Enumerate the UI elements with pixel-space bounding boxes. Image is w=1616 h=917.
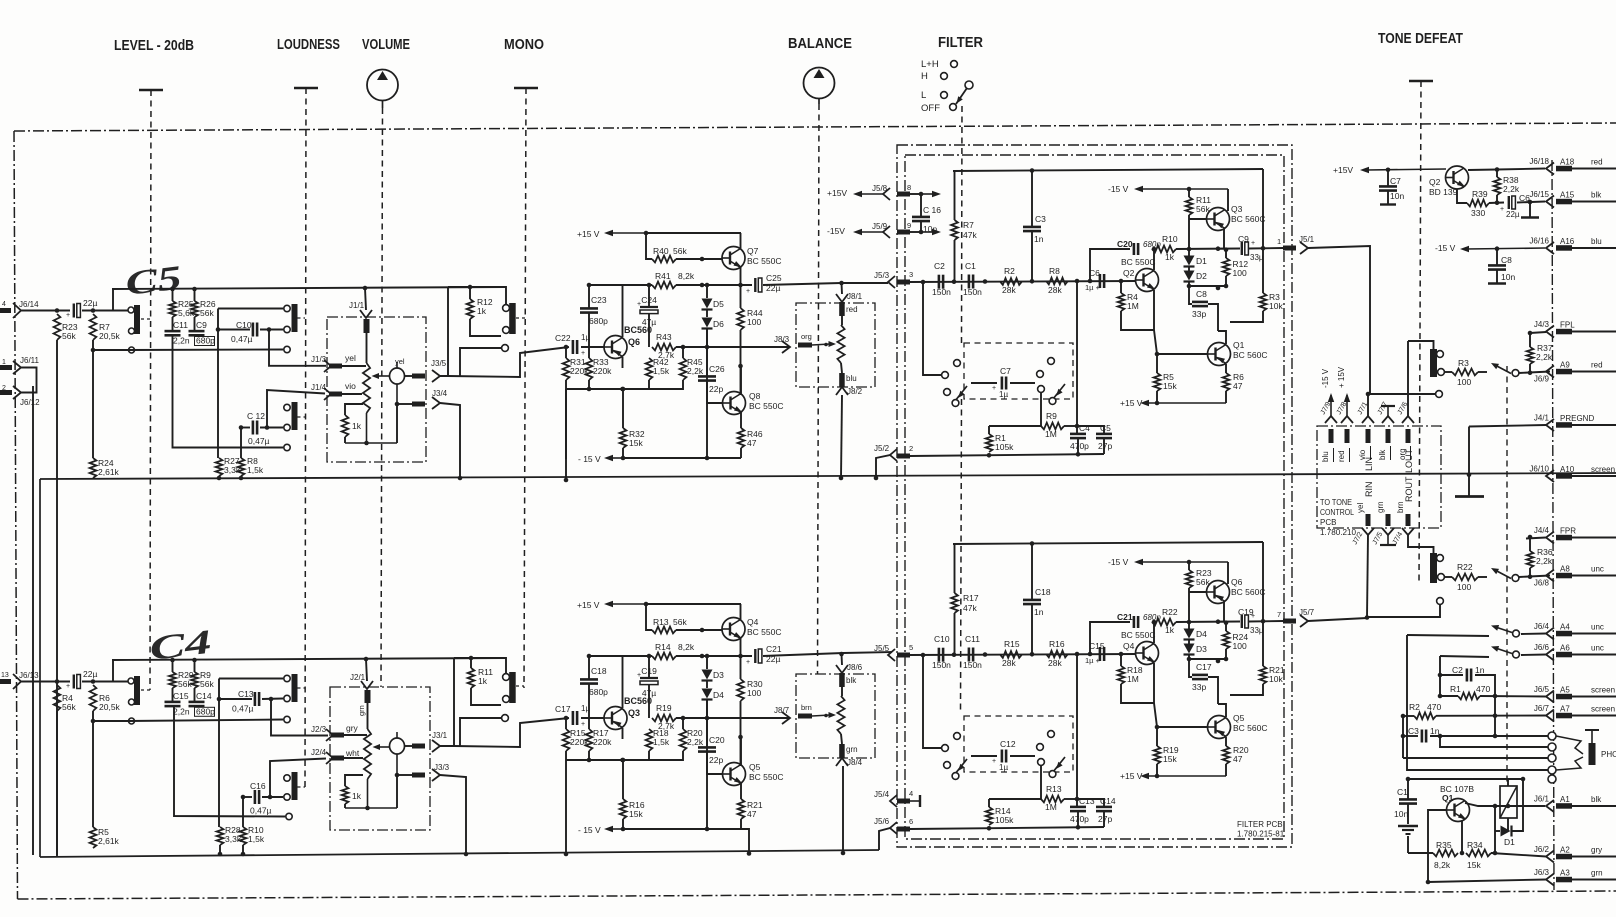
transistor Q1 BC560C bbox=[1208, 343, 1231, 366]
resistor R5 15k bbox=[1154, 373, 1161, 391]
diode col bot D2 bbox=[1188, 282, 1190, 302]
resistor R28 3.3k bbox=[217, 827, 224, 845]
svg-text:+: + bbox=[581, 721, 585, 728]
connector J6/14 bbox=[13, 303, 21, 318]
svg-text:+: + bbox=[581, 350, 585, 357]
connector J6/4 A4 bbox=[1534, 622, 1604, 640]
svg-text:J2/3: J2/3 bbox=[311, 725, 327, 734]
resistor R27 3.3k bbox=[216, 458, 223, 476]
feedback line C21 bbox=[1090, 622, 1130, 654]
C1 top lead bbox=[1407, 779, 1409, 799]
svg-text:J3/4: J3/4 bbox=[432, 389, 448, 398]
-15V to Q3 Q3 bbox=[1227, 189, 1229, 211]
connector J6/12 pin bar bbox=[0, 390, 12, 395]
svg-text:+: + bbox=[637, 672, 641, 679]
svg-text:10k: 10k bbox=[1269, 301, 1283, 311]
resistor R13 1M bbox=[1041, 796, 1064, 803]
svg-text:R10: R10 bbox=[1162, 234, 1178, 244]
R3 right bbox=[1478, 371, 1487, 373]
R2 wire bbox=[1403, 715, 1414, 717]
emitter rail R31 bbox=[566, 388, 649, 390]
svg-text:C26: C26 bbox=[709, 364, 725, 374]
connector J6/9 A9 bbox=[1534, 361, 1603, 384]
svg-text:+15V: +15V bbox=[1333, 165, 1353, 175]
resistor R21 47 bbox=[738, 799, 745, 819]
R23 top bbox=[1188, 562, 1190, 570]
svg-text:blk: blk bbox=[1591, 191, 1602, 200]
svg-text:R14: R14 bbox=[655, 642, 671, 652]
R45 bottom R45 bbox=[649, 380, 683, 389]
svg-text:15k: 15k bbox=[1163, 381, 1177, 391]
balance potentiometer J8/6 bbox=[837, 696, 844, 734]
C2 right lead bbox=[1475, 675, 1495, 696]
A10 screen main bus bbox=[40, 473, 1616, 479]
svg-text:1k: 1k bbox=[477, 306, 487, 316]
svg-text:C10: C10 bbox=[934, 634, 950, 644]
svg-text:+: + bbox=[66, 683, 70, 690]
capacitor C10 0.47u bbox=[252, 323, 255, 337]
C5 top lead bbox=[1077, 426, 1104, 434]
svg-text:150n: 150n bbox=[963, 287, 982, 297]
loudness switch bar bbox=[292, 304, 298, 332]
volume knob bbox=[367, 70, 398, 101]
C12 row bbox=[241, 427, 250, 429]
svg-text:screen: screen bbox=[1591, 686, 1615, 695]
J7/2 wire down bbox=[1367, 535, 1368, 617]
svg-text:C8: C8 bbox=[1196, 289, 1207, 299]
connector J3/3 bbox=[432, 769, 440, 781]
svg-text:A10: A10 bbox=[1560, 465, 1575, 474]
svg-text:+: + bbox=[992, 385, 996, 392]
C18 bottom lead bbox=[1031, 605, 1033, 655]
svg-text:PCB: PCB bbox=[1320, 518, 1336, 527]
svg-text:27p: 27p bbox=[1098, 441, 1112, 451]
R44 leads R30 bbox=[740, 656, 742, 679]
connector J6/7 A7 bbox=[1534, 704, 1615, 722]
Q1 collector wire bbox=[1465, 803, 1545, 806]
C14 top lead bbox=[1077, 799, 1104, 807]
svg-text:+: + bbox=[1251, 613, 1255, 620]
Q8 emitter Q5 bbox=[740, 784, 742, 800]
wire C10 row left bbox=[218, 329, 250, 331]
resistor R24 2.61k bbox=[90, 458, 120, 478]
svg-text:4: 4 bbox=[909, 789, 913, 798]
svg-text:C7: C7 bbox=[1390, 176, 1401, 186]
switch feed J5/3 bbox=[923, 282, 941, 375]
feedback rail R41 bbox=[589, 284, 652, 286]
svg-text:vio: vio bbox=[345, 381, 356, 391]
svg-text:47: 47 bbox=[1233, 754, 1243, 764]
defeat switch bar lower bbox=[1430, 553, 1437, 583]
svg-text:FPL: FPL bbox=[1560, 321, 1575, 330]
svg-text:J5/1: J5/1 bbox=[1299, 235, 1315, 244]
C3R2 left vertical bbox=[1402, 716, 1404, 758]
R2 to J6/7 bbox=[1436, 715, 1546, 717]
svg-text:20,5k: 20,5k bbox=[99, 331, 121, 341]
R35 left vertical bbox=[1407, 836, 1409, 853]
filter sw lever J5/5 bbox=[955, 759, 967, 774]
svg-text:R8: R8 bbox=[1049, 266, 1060, 276]
svg-text:7: 7 bbox=[1277, 610, 1281, 619]
loudness switch2 lower contact 1 bbox=[284, 775, 290, 781]
svg-text:47: 47 bbox=[1233, 381, 1243, 391]
pot lower top terminal bar bbox=[365, 690, 371, 703]
svg-text:C14: C14 bbox=[1100, 796, 1116, 806]
R45 top R20 bbox=[682, 718, 684, 729]
R5 top bbox=[1156, 354, 1158, 373]
svg-text:2,2k: 2,2k bbox=[1503, 184, 1520, 194]
R31 top R15 bbox=[565, 718, 567, 729]
lower channel top bus bbox=[112, 658, 505, 660]
svg-text:J6/10: J6/10 bbox=[1529, 465, 1549, 474]
R17 top lead bbox=[954, 544, 956, 593]
R22 left bbox=[1444, 576, 1452, 578]
R19 bottom bbox=[1156, 764, 1158, 776]
resistor R30 100 bbox=[737, 679, 763, 701]
R31 rail down R31 bbox=[565, 389, 567, 459]
svg-text:Q1: Q1 bbox=[1442, 793, 1454, 803]
J5/4 stub bar bbox=[910, 800, 920, 802]
wire bus to J8/6 bbox=[841, 654, 844, 665]
mono lower switch bar bbox=[509, 672, 516, 703]
svg-text:1.780.215-81: 1.780.215-81 bbox=[1237, 830, 1285, 839]
svg-text:J6/3: J6/3 bbox=[1534, 868, 1550, 877]
J6/4 feed bbox=[1407, 635, 1489, 636]
svg-text:R2: R2 bbox=[1004, 266, 1015, 276]
svg-text:blu: blu bbox=[1591, 237, 1602, 246]
R34 right wire bbox=[1491, 831, 1495, 853]
phono contact 2 bbox=[1548, 743, 1556, 751]
resistor R12 100 bbox=[1223, 258, 1230, 276]
connector J5/4 bbox=[890, 795, 897, 807]
connector J5/7 bbox=[1283, 619, 1296, 624]
drop to J1/3 bbox=[269, 330, 326, 366]
transistor Q6 BC560 bbox=[604, 336, 627, 359]
filter input bus J5/3 bbox=[910, 281, 1136, 282]
svg-text:C 16: C 16 bbox=[923, 205, 941, 215]
loudness switch2 link dash bbox=[298, 416, 306, 418]
svg-text:1,5k: 1,5k bbox=[653, 737, 670, 747]
svg-text:J8/3: J8/3 bbox=[774, 335, 790, 344]
loudness loop vertical bbox=[217, 309, 219, 330]
R11 top to bus bbox=[470, 658, 472, 668]
R36 bottom bbox=[1529, 568, 1531, 577]
mute feed vertical bbox=[1406, 635, 1408, 766]
diode col mid D1 bbox=[1188, 267, 1190, 271]
svg-text:C17: C17 bbox=[1196, 662, 1212, 672]
R7 top lead bbox=[954, 171, 956, 220]
svg-text:15k: 15k bbox=[1467, 860, 1481, 870]
C6 to J6/15 bbox=[1517, 202, 1545, 203]
connector J7/1 bbox=[1362, 416, 1374, 423]
svg-text:C10: C10 bbox=[236, 320, 252, 330]
svg-text:J6/7: J6/7 bbox=[1534, 704, 1550, 713]
resistor R10 1.5k bbox=[240, 827, 247, 845]
Q7 emitter down Q7 bbox=[740, 268, 742, 286]
filter frame outer bbox=[897, 145, 1292, 847]
svg-text:BC 560C: BC 560C bbox=[1233, 350, 1268, 360]
svg-text:R35: R35 bbox=[1436, 840, 1452, 850]
wire J1/4 to pot bbox=[342, 393, 362, 395]
volume control dashed line bbox=[381, 108, 383, 687]
jack bottom to rail lower bbox=[396, 775, 398, 808]
C4 riser bbox=[1076, 426, 1078, 434]
transistor Q2 BD139 bbox=[1446, 166, 1469, 189]
J6/4 out bbox=[1521, 633, 1546, 636]
svg-text:C8: C8 bbox=[1501, 255, 1512, 265]
connector J6/13 pin bar bbox=[0, 679, 11, 684]
R10 bottom bbox=[242, 845, 244, 854]
relay control dashed line bbox=[1506, 366, 1508, 786]
resistor R10 1k bbox=[1152, 246, 1176, 253]
Q6 emitter up Q3 bbox=[622, 656, 624, 708]
terminal bar blu bbox=[839, 373, 845, 387]
Q5 emitter up bbox=[1218, 704, 1226, 717]
svg-text:R34: R34 bbox=[1467, 840, 1483, 850]
svg-text:J1/1: J1/1 bbox=[349, 301, 365, 310]
sw2 to node R9 bbox=[1040, 393, 1042, 427]
R32 top R32 bbox=[622, 389, 624, 428]
pot bottom lead J8/6 bbox=[841, 734, 842, 744]
wire R7 bottom to switch bbox=[93, 340, 128, 350]
diode col bot D3 bbox=[1188, 655, 1190, 675]
R1R2 mid vertical bbox=[1494, 696, 1496, 736]
Q8 collector Q5 bbox=[740, 737, 742, 765]
svg-text:R41: R41 bbox=[655, 271, 671, 281]
phono contact 4 bbox=[1548, 766, 1556, 774]
svg-text:22p: 22p bbox=[709, 755, 723, 765]
svg-text:10n: 10n bbox=[1394, 809, 1408, 819]
wire J3/1 right up bbox=[440, 658, 454, 746]
svg-text:+15 V: +15 V bbox=[1120, 771, 1143, 781]
wire J2/4 to pot bbox=[344, 757, 363, 759]
svg-text:100: 100 bbox=[747, 317, 761, 327]
svg-text:1M: 1M bbox=[1127, 301, 1139, 311]
-15V rail lower bbox=[623, 828, 741, 830]
-15V rail upper bbox=[623, 457, 741, 459]
connector J6/15 A15 bbox=[1529, 190, 1602, 208]
J7/5 ground stub bbox=[1387, 535, 1389, 544]
resistor R7 47k bbox=[951, 220, 958, 240]
Q6 collector down Q3 bbox=[622, 728, 624, 739]
level switch contact 2 bbox=[129, 328, 135, 334]
R32 bottom R16 bbox=[622, 819, 624, 829]
J7/7 bar blk bbox=[1386, 429, 1391, 443]
svg-text:C1: C1 bbox=[965, 261, 976, 271]
relay bottom lead bbox=[1507, 818, 1509, 831]
capacitor C17 1u bbox=[572, 711, 575, 725]
svg-text:1µ: 1µ bbox=[999, 390, 1008, 399]
wire bus to J2/1 bbox=[366, 659, 367, 681]
C22 to Q6 base C17 bbox=[581, 717, 604, 719]
C24 top lead C19 bbox=[648, 656, 650, 678]
svg-text:2,2k: 2,2k bbox=[1536, 352, 1553, 362]
svg-text:BC 550C: BC 550C bbox=[749, 401, 784, 411]
C16 row right bbox=[262, 796, 283, 798]
connector J3/1 bbox=[432, 740, 440, 752]
svg-text:R22: R22 bbox=[1162, 607, 1178, 617]
C7 to right switch C7 bbox=[1010, 382, 1035, 384]
C24 bottom lead C24 bbox=[648, 314, 650, 348]
svg-text:1M: 1M bbox=[1045, 429, 1057, 439]
Q5 collector down bbox=[1225, 737, 1227, 746]
resistor R46 47 bbox=[738, 428, 745, 448]
capacitor C8 10n bbox=[1488, 264, 1506, 267]
svg-text:1µ +: 1µ + bbox=[1085, 656, 1101, 665]
svg-text:2,2n: 2,2n bbox=[173, 336, 190, 346]
svg-text:red: red bbox=[1591, 361, 1603, 370]
wire C13 row left bbox=[219, 698, 252, 700]
svg-text:-15 V: -15 V bbox=[1435, 243, 1456, 253]
svg-text:-15V: -15V bbox=[827, 226, 845, 236]
resistor R33 220k bbox=[586, 358, 593, 380]
svg-text:1M: 1M bbox=[1127, 674, 1139, 684]
wire R41 to C25 C25 bbox=[676, 284, 752, 286]
R6 bottom bbox=[1225, 391, 1227, 403]
connector J3/5 bbox=[432, 370, 440, 382]
svg-text:OFF: OFF bbox=[921, 103, 940, 114]
capacitor C13 0.47u bbox=[254, 692, 257, 706]
svg-text:0,47µ: 0,47µ bbox=[250, 806, 272, 816]
svg-text:Q4: Q4 bbox=[747, 617, 759, 627]
svg-text:J8/1: J8/1 bbox=[847, 292, 863, 301]
defeat lower contact wire bbox=[1367, 605, 1440, 617]
R28 bottom bbox=[219, 845, 221, 854]
svg-text:8: 8 bbox=[907, 183, 911, 192]
svg-text:screen P: screen P bbox=[1591, 465, 1616, 474]
svg-text:33µ: 33µ bbox=[1250, 626, 1264, 635]
filter control dashed line bbox=[961, 106, 964, 343]
C1 ground bbox=[1398, 825, 1418, 827]
connector J5/5 bbox=[888, 649, 895, 661]
J5/8 out arrow bbox=[921, 193, 934, 195]
connector J1/1 bbox=[360, 310, 372, 318]
svg-text:A7: A7 bbox=[1560, 705, 1570, 714]
J7/8 bar red bbox=[1345, 429, 1350, 443]
resistor R1 470 bbox=[1458, 693, 1480, 700]
svg-text:J1/3: J1/3 bbox=[311, 355, 327, 364]
svg-text:gry: gry bbox=[346, 723, 359, 733]
loudness switch lower contact 3 bbox=[284, 716, 290, 722]
Q8 emitter Q8 bbox=[740, 413, 742, 429]
jack symbol lower bbox=[390, 738, 405, 754]
Q6 collector down Q6 bbox=[622, 357, 624, 368]
tone defeat dashed line bbox=[1419, 81, 1421, 583]
J6/9 wire bbox=[1519, 372, 1550, 374]
svg-text:D6: D6 bbox=[713, 319, 724, 329]
capacitor C20 680p bbox=[1133, 243, 1136, 255]
svg-text:Q5: Q5 bbox=[1233, 713, 1245, 723]
diode D2 bbox=[1184, 271, 1195, 281]
resistor R1 105k bbox=[986, 434, 993, 452]
pot top terminal bar bbox=[364, 319, 370, 333]
svg-text:R3: R3 bbox=[1458, 358, 1469, 368]
svg-text:9: 9 bbox=[907, 221, 911, 230]
diode col to -15 D6 bbox=[706, 329, 708, 458]
svg-text:Q8: Q8 bbox=[749, 391, 761, 401]
J1/4 terminal bar bbox=[329, 392, 342, 397]
R12 leads bbox=[1225, 250, 1227, 258]
terminal bar red bbox=[839, 302, 845, 316]
svg-text:J3/1: J3/1 bbox=[432, 731, 448, 740]
transistor Q4 BC550C bbox=[1136, 642, 1159, 665]
capacitor C21 22u bbox=[754, 649, 756, 663]
Q2 emitter down bbox=[1457, 189, 1467, 203]
J5/9 wire bbox=[910, 231, 921, 233]
loudness switch lower bar bbox=[292, 674, 298, 702]
C3 right lead bbox=[1430, 735, 1552, 737]
capacitor C1 150n bbox=[968, 275, 971, 289]
svg-text:Q4: Q4 bbox=[1123, 641, 1135, 651]
svg-text:J5/6: J5/6 bbox=[874, 817, 890, 826]
svg-text:H: H bbox=[921, 71, 928, 82]
J7/1 bar vio bbox=[1366, 429, 1371, 443]
J5/8 wire bbox=[910, 193, 921, 195]
connector J6/6 A6 bbox=[1534, 643, 1604, 661]
svg-text:220k: 220k bbox=[593, 737, 612, 747]
connector J6/12 bbox=[13, 386, 21, 399]
svg-text:D1: D1 bbox=[1196, 256, 1207, 266]
svg-text:BC 550C: BC 550C bbox=[1121, 630, 1156, 640]
filter sw2 lever J5/5 bbox=[1053, 757, 1065, 772]
R37 top bbox=[1529, 333, 1531, 347]
filter frame inner bbox=[905, 155, 1284, 839]
svg-text:27p: 27p bbox=[1098, 814, 1112, 824]
capacitor C16 10n bbox=[912, 216, 930, 219]
svg-text:BC 550C: BC 550C bbox=[1121, 257, 1156, 267]
svg-text:15k: 15k bbox=[629, 809, 643, 819]
filter sw2 contact a J5/3 bbox=[1037, 371, 1044, 378]
svg-text:28k: 28k bbox=[1002, 658, 1016, 668]
PREGND wire bbox=[1469, 425, 1546, 427]
svg-text:J6/9: J6/9 bbox=[1534, 375, 1550, 384]
level switch lower link dash bbox=[141, 689, 150, 691]
svg-text:A2: A2 bbox=[1560, 846, 1570, 855]
svg-text:FPR: FPR bbox=[1560, 527, 1576, 536]
fb line to C9 C9 bbox=[1176, 248, 1240, 251]
svg-text:J6/5: J6/5 bbox=[1534, 685, 1550, 694]
level lower c3 to loudness c3 bbox=[128, 720, 283, 722]
svg-text:D3: D3 bbox=[1196, 644, 1207, 654]
svg-text:0,47µ: 0,47µ bbox=[248, 436, 270, 446]
R22 right bbox=[1478, 576, 1487, 578]
diode D6 bbox=[702, 318, 713, 328]
transistor Q3 BC560C bbox=[1207, 208, 1230, 231]
svg-text:J4/3: J4/3 bbox=[1534, 320, 1550, 329]
C23 top lead C18 bbox=[588, 656, 590, 679]
C8 bottom lead right bbox=[1496, 270, 1498, 283]
pot top lead J8/1 bbox=[841, 316, 843, 325]
svg-text:56k: 56k bbox=[200, 308, 214, 318]
capacitor C6 1u bbox=[1099, 274, 1102, 288]
svg-text:1n: 1n bbox=[1034, 607, 1044, 617]
pot top lead bbox=[366, 333, 368, 363]
diode mid D5 bbox=[706, 310, 708, 317]
svg-text:56k: 56k bbox=[62, 702, 76, 712]
svg-text:28k: 28k bbox=[1002, 285, 1016, 295]
svg-text:R7: R7 bbox=[963, 220, 974, 230]
J7/7 stub bbox=[1387, 407, 1389, 416]
wire up to top bus bbox=[112, 289, 114, 311]
mono switch contact 1 bbox=[503, 305, 510, 312]
svg-text:R1: R1 bbox=[1450, 684, 1461, 694]
svg-text:LOUDNESS: LOUDNESS bbox=[277, 37, 340, 53]
drop to J2/3 bbox=[271, 699, 328, 736]
capacitor C14 27p bbox=[1096, 806, 1112, 809]
wiper J8/7 bbox=[812, 715, 830, 716]
svg-text:5: 5 bbox=[909, 643, 913, 652]
phono wire c bbox=[1440, 736, 1552, 747]
